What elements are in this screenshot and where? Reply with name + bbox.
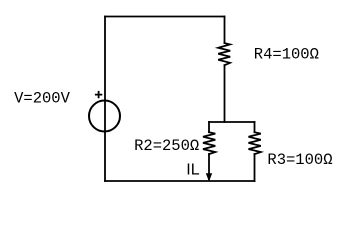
wire right vertical lower <box>224 65 226 122</box>
svg-text:R3=100Ω: R3=100Ω <box>267 151 332 169</box>
voltage source V <box>89 101 120 132</box>
wire right branch lower <box>254 154 256 181</box>
current arrow IL head <box>206 173 212 181</box>
wire left branch lower <box>208 154 210 179</box>
wire right branch upper <box>254 122 256 132</box>
wire right vertical upper <box>224 17 226 44</box>
resistor R3 <box>249 132 261 154</box>
polarity plus of source <box>95 91 102 98</box>
wire bottom <box>105 180 255 182</box>
wire top <box>105 16 225 18</box>
resistor R4 <box>218 43 230 65</box>
wire left branch upper <box>208 122 210 132</box>
wire left vertical <box>104 17 106 182</box>
svg-text:V=200V: V=200V <box>14 90 71 108</box>
wire junction bar <box>209 121 255 123</box>
svg-text:R2=250Ω: R2=250Ω <box>134 137 199 155</box>
svg-text:IL: IL <box>186 162 199 179</box>
svg-text:R4=100Ω: R4=100Ω <box>254 45 319 63</box>
resistor R2 <box>203 132 215 154</box>
